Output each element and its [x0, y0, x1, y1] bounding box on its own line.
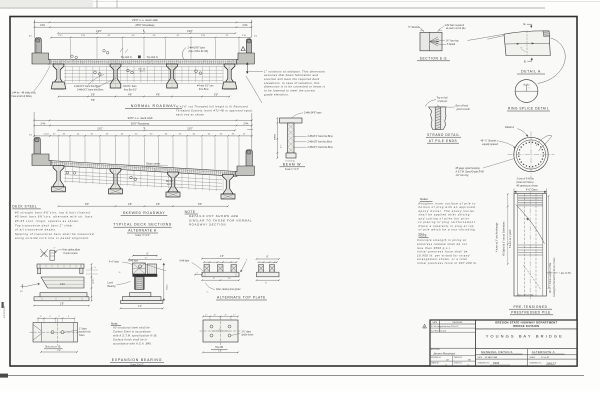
section 2 left curb	[32, 154, 51, 166]
alt plate second detail lug 1	[259, 265, 264, 273]
title block row line 2	[476, 354, 578, 356]
bearing top plate side	[37, 264, 84, 268]
section 1 rebar grid horizontals	[64, 66, 223, 68]
beam W web lattice	[288, 124, 294, 153]
fixed bearing top dim 6	[133, 255, 157, 257]
leader line utility	[34, 66, 50, 91]
leader curve rod note	[246, 76, 262, 103]
fixed bearing circle	[138, 265, 141, 268]
alt plate left small dims	[195, 274, 202, 276]
bearing bottom dim	[34, 305, 89, 307]
top B inner dim	[212, 330, 230, 332]
detail A mid line	[505, 42, 549, 45]
section 2 right rail post	[246, 150, 252, 166]
signature area top line	[430, 347, 476, 349]
section 1 right reference line	[251, 20, 253, 38]
top B plan outline	[203, 320, 238, 342]
anchor bolt with washers	[50, 250, 55, 260]
section 2 dim line B	[34, 125, 252, 127]
section B top dims	[38, 317, 75, 319]
scan tick top-left b	[116, 0, 118, 8]
top B extension lines	[209, 318, 211, 321]
leader lines to grid left	[88, 75, 116, 89]
leader marks upper deck	[120, 48, 128, 53]
section B plan outline	[33, 323, 78, 343]
rebar callout circles section 2	[66, 171, 69, 174]
ring splice circle	[515, 80, 538, 103]
fixed bearing right dim	[163, 263, 165, 301]
bearing keeper	[41, 277, 84, 288]
section 1 dim line C	[58, 32, 236, 34]
pile elevation outline	[514, 194, 546, 296]
title underline	[476, 348, 578, 350]
bearing bottom plate	[34, 297, 89, 301]
detail A leader from left	[488, 36, 505, 40]
section 1 rebar grid verticals	[65, 66, 67, 82]
top B dims	[203, 316, 238, 318]
warning triangle	[241, 47, 245, 51]
scan tick top-left a	[96, 0, 98, 8]
girder B3 section 1	[167, 64, 178, 88]
bearing right dims	[91, 264, 93, 301]
section 1 extension lines	[70, 39, 72, 59]
section EE fan arrows	[430, 37, 440, 46]
alt plate pointer	[241, 262, 247, 273]
revision row 2	[430, 331, 476, 333]
section B extension lines	[37, 319, 39, 323]
section 1 left reference line	[33, 20, 35, 39]
deck transverse bar ticks	[49, 60, 51, 63]
pile section center lines	[530, 132, 532, 178]
alt plate lug 3	[231, 265, 237, 273]
section 2 extension lines	[58, 137, 60, 160]
beam W top flange	[280, 118, 303, 123]
section EE square	[420, 32, 442, 50]
girder B4 section 1	[224, 64, 235, 89]
alt plate second detail lug 2	[270, 265, 275, 273]
girder B2 pedestal	[109, 189, 123, 194]
leader to detail A	[468, 34, 504, 40]
pile diagonal arrows	[526, 218, 528, 220]
pile transition diagonal	[516, 205, 545, 244]
deck callout circles upper	[71, 55, 74, 58]
girder B1 section 1	[53, 64, 64, 89]
beam W left dim line	[276, 118, 278, 158]
girder B4 pedestal	[221, 194, 235, 199]
deck slab stipple	[49, 60, 234, 63]
girder B3 section 2	[168, 172, 179, 192]
strand hatched core	[435, 107, 441, 129]
fixed bearing lower plate 1	[130, 292, 151, 296]
pile section script scrawl	[536, 135, 552, 151]
girder B2 section 2	[110, 169, 121, 189]
top B center dashed lines	[200, 330, 242, 332]
signature underline	[430, 355, 476, 357]
signature grid divider	[452, 356, 454, 366]
pile section outer circle	[514, 137, 548, 171]
pile spiral band top	[518, 195, 543, 206]
section 2 right reference line	[251, 113, 253, 150]
section 2 left reference line	[33, 112, 35, 137]
scan separator line upper	[0, 7, 545, 9]
pile centerline	[529, 191, 531, 299]
section 2 dim line C	[58, 129, 235, 131]
detail A vertical centerline	[526, 31, 528, 56]
section 1 dim line D	[51, 37, 250, 39]
fixed bearing upper block left	[133, 263, 146, 274]
girder B4 section 2	[223, 174, 234, 194]
detail A band	[504, 31, 550, 56]
section 2 bottom dim line	[59, 205, 229, 207]
strand detail trapezoid	[429, 107, 446, 129]
girder B4 bell	[222, 82, 237, 89]
girder B1 bell	[51, 82, 66, 89]
pile section inner circle	[516, 140, 545, 169]
top B bottom dim	[203, 351, 238, 353]
left margin microfilm stamp	[2, 302, 4, 308]
bearing mid plate	[40, 293, 87, 297]
alt plate second body	[257, 272, 280, 277]
scan blob bottom-left	[0, 374, 8, 378]
beam W leaders right	[294, 136, 307, 147]
pile elevation strand dashes	[523, 194, 525, 296]
girder B3 pedestal	[166, 192, 180, 197]
girder B1 section 2	[53, 166, 64, 187]
camber double arrow	[246, 63, 248, 74]
title block outer box	[430, 320, 577, 366]
fixed bearing bottom plate	[121, 301, 163, 304]
detail A sweeping leader	[538, 38, 565, 83]
title block main divider	[475, 320, 477, 366]
section B inner verticals	[41, 323, 43, 343]
fixed bearing dim 11	[129, 258, 161, 260]
beam W web	[288, 123, 294, 153]
section 2 deck slab	[51, 161, 237, 177]
ring splice diameter line	[515, 90, 538, 92]
section 1 dim line A	[34, 21, 251, 23]
scan gray strip top-left	[0, 0, 93, 7]
alt plate body	[202, 272, 239, 277]
leader to balloon note	[249, 70, 263, 72]
section 2 right curb	[236, 166, 255, 175]
section 1 bottom dim line	[59, 96, 230, 98]
pile section strand dots	[543, 155, 544, 156]
bearing column hatched	[135, 277, 143, 290]
section 2 deck bar ticks	[51, 161, 53, 165]
svg-text:MICROFILM: MICROFILM	[4, 306, 6, 318]
alt plate sub dims	[204, 261, 237, 263]
section 1 right curb	[237, 53, 255, 64]
rebar callout circles section 1	[94, 71, 97, 74]
alt plate bottom dim	[202, 279, 239, 281]
department underline	[476, 328, 578, 330]
scan edge line top	[93, 1, 600, 3]
alt plate lug 1	[204, 265, 210, 273]
section 2 dim line A	[34, 119, 252, 121]
section B bolt holes	[51, 331, 54, 334]
section 2 dim line D	[34, 135, 252, 137]
signature grid line	[430, 360, 476, 362]
section 2 left rail post	[34, 138, 40, 154]
pile left dim line	[507, 194, 509, 264]
section 1 right rail post	[246, 39, 251, 53]
masonry plate dark	[133, 274, 158, 277]
section EE corner dims	[420, 30, 424, 32]
brace to bar note	[182, 48, 186, 59]
section 1 deck slab	[48, 60, 238, 64]
section 2 rebar grid horizontals	[64, 171, 222, 180]
section 1 left rail post	[35, 38, 41, 53]
scan separator line bottom	[0, 375, 584, 377]
revision row 1	[430, 327, 476, 329]
revision triangle	[423, 324, 427, 328]
section 2 rebar grid verticals	[65, 167, 67, 183]
detail A splice hatch	[543, 31, 550, 37]
deck top dark mark	[138, 56, 141, 59]
pile right dim line	[548, 196, 550, 288]
section 2 deck stipple	[52, 162, 234, 175]
fixed bearing lower plate 2	[122, 297, 161, 301]
section B bevel lines	[33, 325, 42, 341]
strand top tick	[437, 105, 439, 107]
hole girth leader	[55, 250, 62, 252]
revision header divider	[439, 320, 441, 332]
ring splice weld mark	[526, 85, 528, 91]
title block vertical divider lower	[527, 349, 529, 366]
section B center dashed lines	[30, 331, 81, 333]
girder B1 pedestal	[52, 187, 66, 192]
pile elevation edge lines	[517, 194, 519, 296]
title block row line 3	[476, 358, 578, 360]
bearing left arrow mark	[21, 284, 26, 288]
top B holes	[210, 325, 213, 328]
alt plate second bottom dim	[257, 279, 280, 281]
section EE inner line	[429, 32, 431, 50]
fixed bearing upper block right	[147, 264, 156, 274]
gap dim marks	[86, 269, 98, 271]
pile spiral band middle	[518, 245, 543, 255]
section 1 left curb	[32, 53, 50, 64]
girder B2 section 1	[110, 64, 121, 88]
section B bottom dim	[41, 351, 77, 353]
section 1 dim line B	[34, 26, 251, 28]
revision table header line	[430, 323, 476, 325]
beam W bottom flange	[286, 153, 296, 158]
alt plate lug 2	[218, 265, 224, 273]
